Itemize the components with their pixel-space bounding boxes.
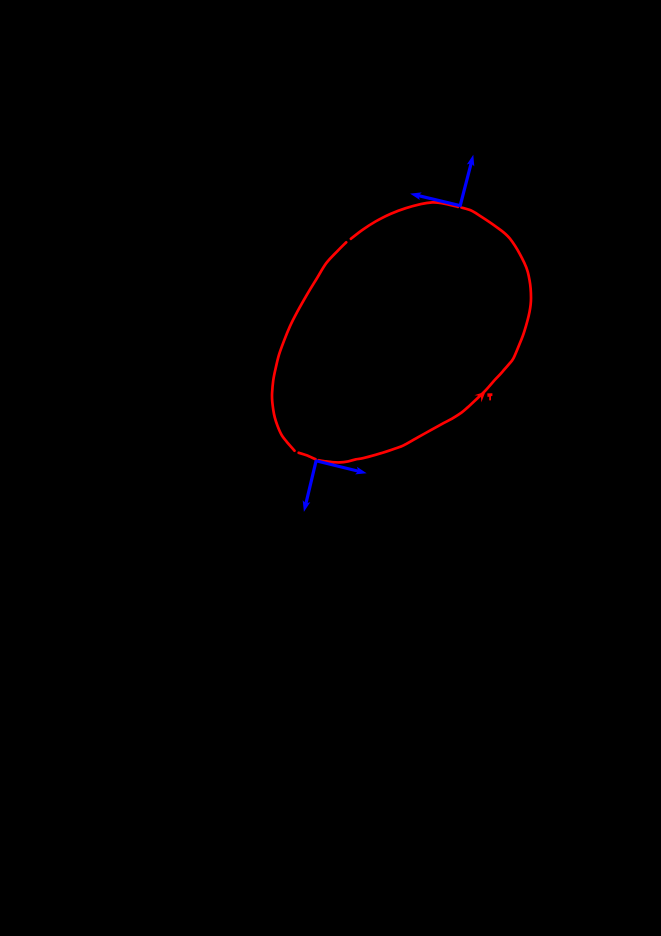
tangent vector arrow at point M2 (right) <box>317 461 358 471</box>
normal vector arrow at point M1 (up) <box>460 164 471 206</box>
small red curve label glyph <box>487 393 492 400</box>
direction-of-motion arrowhead on curve <box>474 392 485 403</box>
normal vector arrow at point M2 (down-left) <box>306 461 316 503</box>
trajectory curve: short segment left of point M2 <box>299 453 316 459</box>
tangent vector arrow at point M1 (left) <box>419 196 459 206</box>
trajectory curve: left arc segment <box>272 242 346 450</box>
trajectory curve: upper arc segment <box>351 202 458 238</box>
trajectory curve: right/bottom arc segment <box>319 208 531 463</box>
